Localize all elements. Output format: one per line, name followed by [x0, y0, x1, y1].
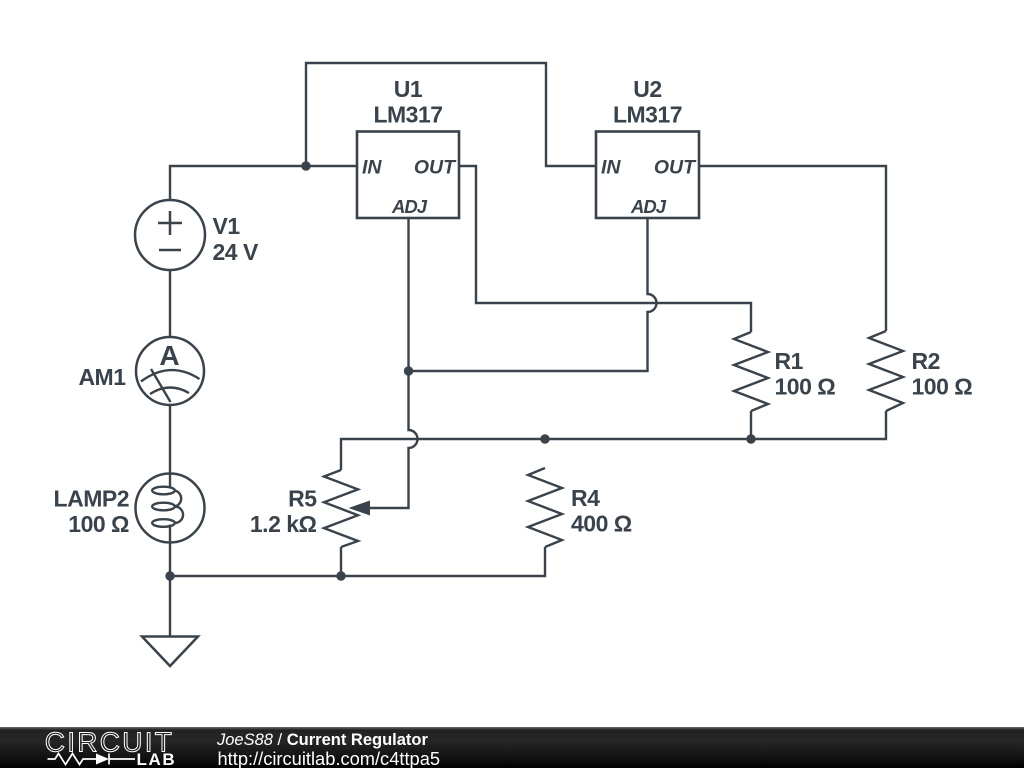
wire R5 bottom lead — [340, 547, 342, 576]
wire U2 ADJ down with hop — [409, 218, 657, 371]
wire LAMP2 to ground — [169, 542, 171, 636]
svg-text:R2: R2 — [912, 348, 940, 374]
wire U2 OUT to R2 top — [699, 166, 886, 331]
wire mid horizontal R5 top to R2 bottom — [341, 411, 886, 470]
svg-text:IN: IN — [362, 157, 382, 179]
CircuitLab logo — [0, 727, 220, 768]
svg-text:LM317: LM317 — [373, 102, 442, 128]
svg-text:OUT: OUT — [654, 157, 697, 179]
svg-text:IN: IN — [601, 157, 621, 179]
wire top loop U1 input to U2 input — [306, 63, 596, 166]
svg-text:A: A — [159, 340, 179, 371]
regulator U1 LM317 body — [357, 132, 459, 219]
regulator U2 LM317 body — [596, 132, 699, 219]
svg-text:R4: R4 — [571, 485, 600, 511]
svg-text:100 Ω: 100 Ω — [68, 511, 129, 537]
svg-text:100 Ω: 100 Ω — [775, 374, 836, 400]
node: ADJ net junction — [404, 366, 413, 375]
svg-text:LAB: LAB — [137, 750, 177, 768]
resistor R1 zigzag — [734, 332, 768, 411]
svg-text:24 V: 24 V — [213, 239, 259, 265]
svg-text:U2: U2 — [633, 76, 661, 102]
svg-text:1.2 kΩ: 1.2 kΩ — [250, 511, 317, 537]
svg-text:400 Ω: 400 Ω — [571, 511, 632, 537]
wire R1 bottom lead — [750, 411, 752, 439]
potentiometer R5 wiper arrow — [349, 501, 371, 516]
ammeter AM1 — [136, 337, 204, 405]
svg-text:V1: V1 — [213, 213, 241, 239]
wire left vertical top — [170, 166, 357, 200]
svg-text:ADJ: ADJ — [391, 196, 428, 217]
voltage source V1 — [135, 200, 205, 270]
wire V1 to AM1 — [169, 270, 171, 337]
node: ground rail left — [165, 571, 174, 580]
svg-text:100 Ω: 100 Ω — [912, 374, 973, 400]
svg-text:U1: U1 — [394, 76, 423, 102]
svg-text:OUT: OUT — [414, 157, 457, 179]
footer bar — [0, 727, 1024, 768]
wire U1 OUT to R1 top — [459, 166, 751, 332]
footer title text — [217, 732, 428, 749]
svg-text:R5: R5 — [288, 486, 317, 512]
wire U1 ADJ down with hop to R5 wiper — [366, 218, 418, 508]
svg-text:AM1: AM1 — [78, 364, 126, 390]
wire AM1 to LAMP2 — [169, 405, 171, 474]
svg-text:LAMP2: LAMP2 — [54, 486, 129, 512]
wire bottom horizontal ground rail — [170, 547, 545, 576]
node: R5 bottom — [336, 571, 345, 580]
svg-text:ADJ: ADJ — [630, 196, 667, 217]
node: R4 top — [540, 434, 549, 443]
resistor R4 zigzag — [528, 468, 562, 547]
potentiometer R5 zigzag — [324, 470, 358, 547]
node: R1 bottom — [746, 434, 755, 443]
ground — [142, 637, 198, 667]
node: top rail junction — [301, 161, 310, 170]
svg-text:LM317: LM317 — [613, 102, 682, 128]
resistor R2 zigzag — [869, 331, 903, 411]
lamp LAMP2 — [136, 474, 205, 543]
svg-text:R1: R1 — [775, 348, 804, 374]
